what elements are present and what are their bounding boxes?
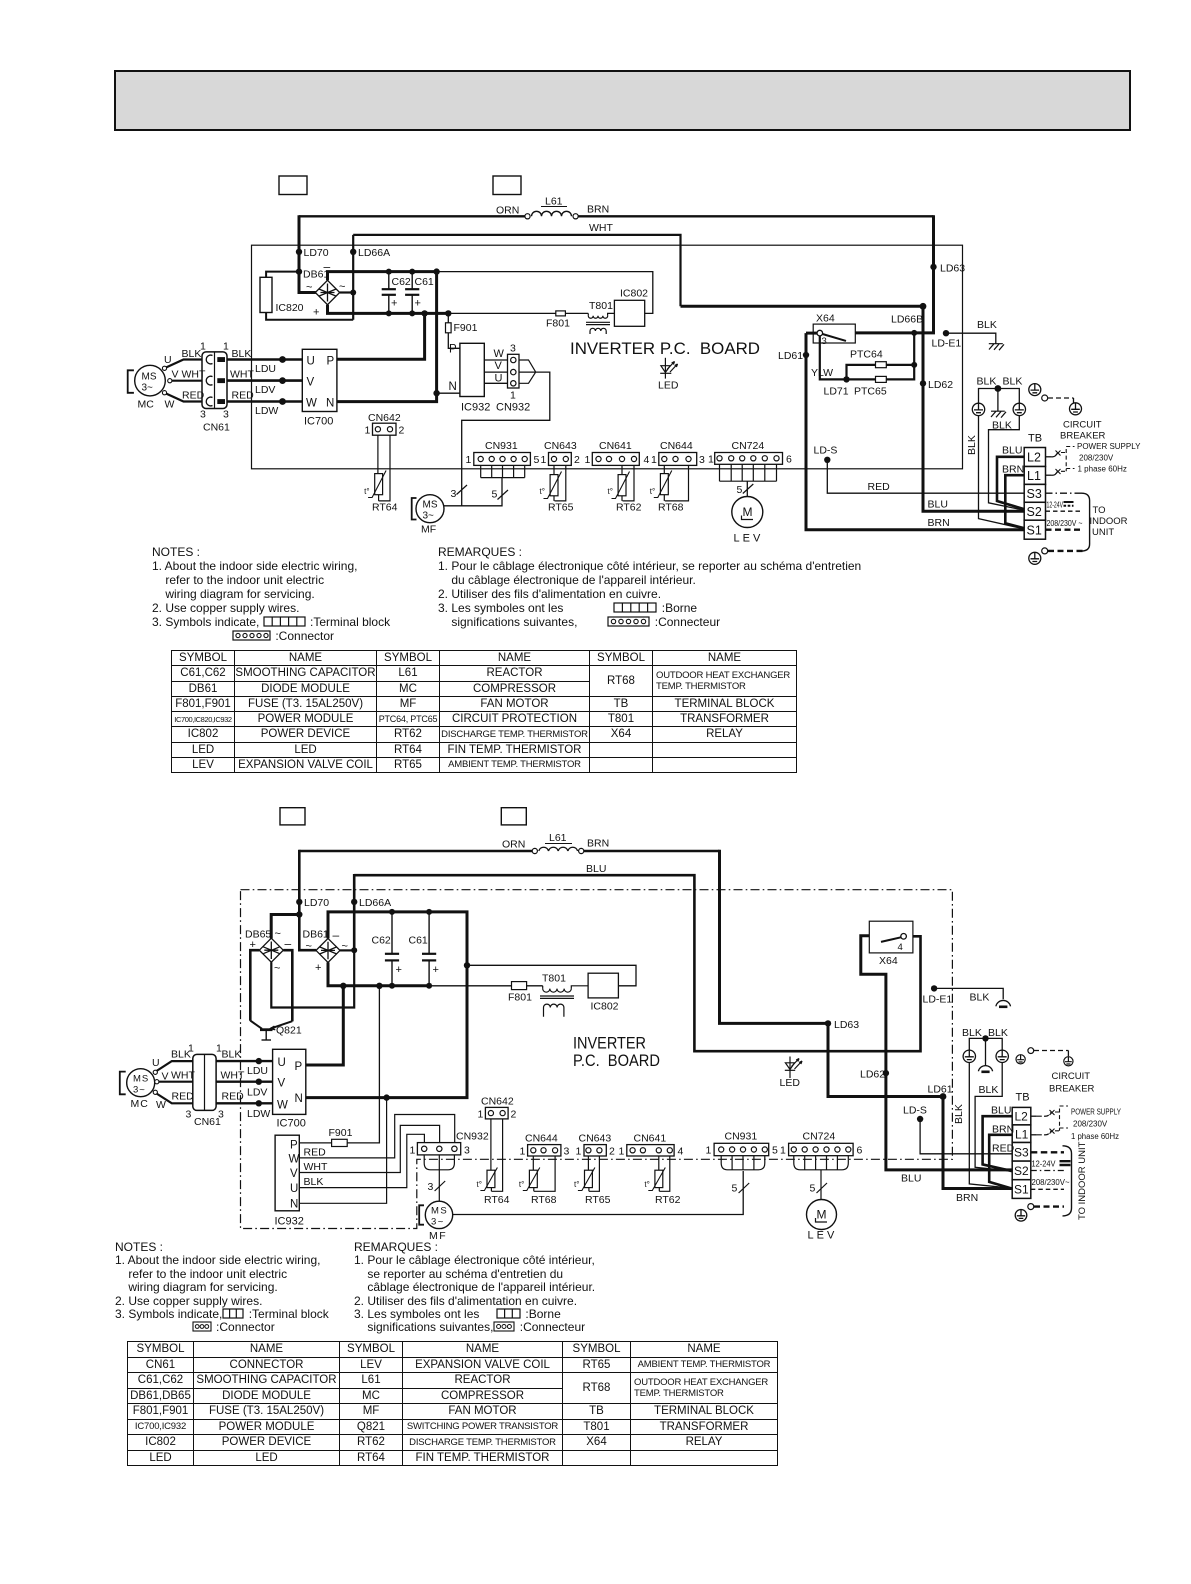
svg-text:~: ~ [342,941,348,953]
svg-text:208/230V: 208/230V [1079,454,1114,463]
svg-text:1 phase 60Hz: 1 phase 60Hz [1071,1132,1119,1141]
svg-text:RT65: RT65 [585,1194,611,1206]
connector CN643 [584,1145,606,1156]
svg-text:LD-E1: LD-E1 [923,994,953,1006]
wire IC932 N [299,1098,386,1204]
fuse F901 [299,1142,331,1144]
connector CN641 [592,453,639,466]
wire BRN (LD61 to S1) [943,1097,1013,1189]
svg-text:BLU: BLU [901,1173,921,1185]
wire F801 to T801 [565,312,588,314]
svg-text:3~: 3~ [133,1085,146,1096]
svg-text:LED: LED [780,1077,801,1089]
svg-text:X64: X64 [879,955,898,967]
svg-text:W: W [289,1154,300,1166]
svg-text:POWER SUPPLY: POWER SUPPLY [1071,1108,1122,1117]
svg-text:L2: L2 [1015,1110,1029,1124]
svg-text:C62: C62 [372,935,391,947]
placeholder rectangle (model box 2) [501,808,526,825]
wire BLK right earth to S2 [975,1063,1011,1172]
svg-text:3: 3 [464,1145,470,1157]
thermistor RT64 [491,1119,503,1191]
ground (chassis, center) [991,411,1006,417]
wire IC820 bottom to AC-right [266,313,353,320]
wire BLK right earth to S2 [989,416,1025,511]
svg-text:BLK: BLK [966,435,978,455]
wire jumper L1-S1 (BRN) [989,1135,1012,1189]
svg-text:5: 5 [732,1183,738,1195]
brace to indoor unit [1063,1146,1072,1216]
wire CN724 bundle to LEV [794,1156,849,1200]
svg-text:1: 1 [619,1146,625,1158]
svg-text:Q821: Q821 [276,1025,302,1037]
svg-text:T801: T801 [589,300,613,312]
svg-text:W: W [277,1100,288,1112]
node LD70 [296,899,302,905]
wire positive bus [328,962,430,985]
svg-text:CN643: CN643 [579,1133,612,1145]
thermistor RT64 [378,435,390,501]
svg-text:+: + [433,964,439,976]
wire BRN vertical to X64 [855,215,933,333]
svg-text:t°: t° [519,1180,524,1189]
svg-text:CN642: CN642 [481,1096,514,1108]
wire DB65 to Q821 [250,950,259,1021]
fuse F801 [556,311,566,316]
svg-text:IC802: IC802 [620,288,648,300]
svg-text:CIRCUIT: CIRCUIT [1052,1071,1091,1082]
connector CN932 [508,354,520,388]
svg-text:CN644: CN644 [525,1133,558,1145]
wire BLK left earth to S1 [979,416,1025,529]
svg-text:CN643: CN643 [544,440,577,452]
svg-text:PTC65: PTC65 [854,386,887,398]
placeholder rectangle (model box 1) [280,808,305,825]
wires IC932 to CN932 [484,360,507,383]
svg-text:+: + [396,964,402,976]
svg-text:IC932: IC932 [461,402,490,414]
wire PTC to X64 output [913,333,915,365]
svg-text:1: 1 [466,454,472,466]
svg-text:WHT: WHT [221,1070,245,1082]
svg-text:TB: TB [1016,1092,1030,1104]
node LD66B [920,303,927,310]
svg-text:RED: RED [868,481,891,493]
svg-text:1: 1 [780,1145,786,1157]
svg-text:BLK: BLK [953,1104,965,1124]
svg-text:1: 1 [410,1145,416,1157]
svg-text:V: V [278,1078,286,1090]
node LD71 [843,376,849,382]
svg-text:RT68: RT68 [531,1194,557,1206]
svg-text:1: 1 [585,454,591,466]
capacitor C61 [422,912,436,986]
svg-text:BLU: BLU [586,863,606,875]
thermistor RT68 [664,465,688,501]
node LD61 [940,1093,947,1100]
svg-text:BLK: BLK [182,348,202,360]
wire earth links [979,389,1020,404]
svg-text:F801: F801 [508,992,532,1004]
svg-text:LEV: LEV [734,533,764,545]
node LDV [279,377,286,384]
svg-text:t°: t° [644,1180,649,1189]
svg-text:CN932: CN932 [456,1131,489,1143]
wire U phase [225,358,302,361]
svg-text:W: W [165,399,175,411]
wire motor V lead [172,380,203,382]
svg-text:WHT: WHT [230,369,254,381]
svg-text:1: 1 [478,1109,484,1121]
LED indicator [785,1057,802,1079]
svg-text:+: + [415,298,421,310]
svg-text:RT62: RT62 [655,1194,681,1206]
power device IC802 [614,300,644,326]
svg-text:T801: T801 [542,973,566,985]
svg-text:S1: S1 [1014,1183,1029,1197]
svg-text:+: + [391,298,397,310]
svg-text:LDW: LDW [255,405,278,417]
svg-text:CN644: CN644 [660,440,693,452]
svg-text:WHT: WHT [171,1070,195,1082]
svg-text:S2: S2 [1027,505,1042,519]
node DB61 AC-left junction [296,268,302,274]
expansion valve LEV [732,497,763,528]
svg-text:ORN: ORN [502,839,525,851]
svg-text:LD70: LD70 [304,247,329,259]
power module IC700 [273,1049,306,1114]
wire BRN to LD63/LD61 [584,850,720,852]
fuse F901 [447,313,449,322]
svg-text:U: U [152,1057,160,1069]
node LD-E1 [931,985,937,991]
earth terminal left [963,1050,975,1062]
svg-text:3: 3 [223,409,229,421]
svg-text:CN931: CN931 [725,1131,758,1143]
svg-text:LD61: LD61 [778,350,803,362]
svg-text:12-24V: 12-24V [1032,1159,1056,1169]
svg-text:208/230V: 208/230V [1073,1120,1108,1129]
svg-text:2: 2 [609,1146,615,1158]
node P-rail tap [421,310,427,316]
fuse F801 [512,982,527,990]
svg-text:t°: t° [540,487,545,496]
svg-text:12-24V: 12-24V [1047,500,1064,510]
svg-text:M: M [743,505,753,519]
node LD-S [824,457,830,463]
svg-text:S3: S3 [1027,487,1042,501]
wire LD70 drop from ORN [299,215,316,292]
svg-text:S1: S1 [1027,524,1042,538]
svg-text:IC802: IC802 [591,1001,619,1013]
connector CN724 [720,464,777,481]
svg-text:t°: t° [364,487,369,496]
svg-text:PTC64: PTC64 [850,349,883,361]
svg-text:IC932: IC932 [275,1216,304,1228]
node DB61 AC-right junction [351,947,357,953]
svg-text:IC820: IC820 [276,302,304,314]
power supply connection L1 [1046,474,1052,476]
wire motor leads [157,1061,193,1071]
earth terminal bottom [1042,548,1048,554]
svg-text:5: 5 [492,489,498,501]
svg-text:LDV: LDV [247,1087,267,1099]
svg-text:S3: S3 [1014,1146,1029,1160]
svg-text:3: 3 [699,454,705,466]
svg-text:W: W [494,348,505,360]
svg-text:WHT: WHT [182,369,206,381]
connector CN643 [549,453,572,466]
svg-text:5: 5 [810,1183,816,1195]
svg-text:RED: RED [222,1091,245,1103]
symbol table (top) [171,650,797,773]
earth terminal right [996,1050,1008,1062]
svg-text:RED: RED [172,1091,195,1103]
wire to IC802 right [467,965,636,986]
relay X64 [869,921,913,953]
wire P rail [306,986,344,1065]
svg-text:BRN: BRN [928,517,950,529]
wire P rail to IC700 [336,313,425,359]
svg-text:U: U [307,356,315,368]
wire S2 dash-dot [1031,1170,1064,1172]
placeholder rectangle (model box 2) [493,176,521,195]
connector CN931 [714,1143,769,1155]
svg-text:~: ~ [274,963,280,975]
svg-text:CN641: CN641 [599,440,632,452]
node IC932 N junction [383,1094,389,1100]
svg-text:MS: MS [423,500,438,511]
svg-text:1: 1 [365,425,371,437]
wire IC932 U [299,1134,424,1187]
svg-text:BLK: BLK [962,1027,982,1039]
svg-text:t°: t° [608,487,613,496]
svg-text:3: 3 [510,343,516,355]
thermistor RT62 [622,465,634,501]
svg-text:C61: C61 [415,276,434,288]
svg-text:MC: MC [138,399,155,411]
svg-text:LD-E1: LD-E1 [932,338,962,350]
node LD-E1 [943,330,949,336]
svg-text:L61: L61 [545,196,563,208]
svg-text:3: 3 [822,336,827,347]
ground (earth dish, center) [978,1066,992,1072]
wire S1 dashed [1031,1188,1064,1190]
svg-text:BLK: BLK [970,992,990,1004]
wire BLK left earth to S1 [969,1063,1012,1189]
svg-text:DB61: DB61 [303,929,329,941]
svg-text:LD63: LD63 [834,1019,859,1031]
transformer T801 [586,313,614,334]
node DB65 bus junction [296,911,302,917]
svg-text:TB: TB [1028,433,1042,445]
wire WHT (AC neutral) [353,235,680,306]
wire 5-conductor mark (LEV) [743,484,754,494]
svg-text:1: 1 [510,390,516,402]
wire negative bus [306,912,467,1098]
node N-rail top [433,268,439,274]
connector CN644 [659,453,697,466]
svg-text:S2: S2 [1014,1164,1029,1178]
svg-text:UNIT: UNIT [1092,527,1114,538]
surge absorber IC820 [260,277,272,312]
svg-text:LD71: LD71 [824,386,849,398]
svg-text:BLK: BLK [1003,376,1023,388]
svg-text:208/230V~: 208/230V~ [1032,1177,1070,1187]
wire W phase [225,400,302,403]
svg-text:ORN: ORN [496,205,519,217]
node F901 tap [445,310,451,316]
svg-text:CN724: CN724 [803,1131,836,1143]
svg-text:3~: 3~ [423,511,435,522]
svg-text:RT68: RT68 [658,502,684,514]
power module IC700 [302,349,337,411]
svg-text:TO: TO [1093,505,1106,516]
power module IC932 [275,1135,299,1211]
svg-text:L2: L2 [1027,451,1041,465]
node LD-S [917,1116,923,1122]
notes bottom-left [115,1241,329,1335]
thermistor RT68 [533,1156,555,1191]
svg-text:P.C. BOARD: P.C. BOARD [573,1052,660,1070]
wire jumper L2-S2 (BLU) [997,457,1025,510]
svg-text:IC700: IC700 [277,1118,306,1130]
svg-text:BLK: BLK [979,1084,999,1096]
wire S3 dashed (to indoor unit) [1046,492,1084,494]
wire LD61 vertical (BRN to S1) [806,333,1025,530]
node BLK earth junction [982,1035,988,1041]
svg-text:BREAKER: BREAKER [1060,431,1106,442]
wire jumper L2-S2 (BLU) [983,1116,1013,1171]
svg-text:LEV: LEV [808,1230,838,1242]
notes top-right (French) [438,545,861,629]
node P rail tap [340,983,346,989]
connector CN61 [202,352,227,409]
ground (chassis, LD-E1) [989,344,1004,351]
wire negative bus [328,272,437,281]
wire earth links [969,1038,1002,1050]
svg-text:208/230V ~: 208/230V ~ [1047,518,1083,528]
notes top-left [152,545,390,643]
svg-text:P: P [295,1061,303,1073]
wire CN931 bundle [721,1156,765,1170]
svg-text:3: 3 [428,1181,434,1193]
svg-text:MS: MS [431,1206,448,1217]
svg-text:CN641: CN641 [634,1133,667,1145]
svg-text:P: P [327,356,335,368]
svg-text:+: + [315,962,321,974]
svg-text:C61: C61 [409,935,428,947]
svg-text:3: 3 [564,1146,570,1158]
wire V phase [216,1080,273,1082]
svg-text:RED: RED [232,390,255,402]
svg-text:LDW: LDW [247,1108,270,1120]
svg-text:4: 4 [644,454,650,466]
svg-text:3: 3 [200,409,206,421]
svg-text:RED: RED [182,390,205,402]
connector CN642 [373,423,397,435]
node LDW [279,398,286,405]
svg-text:1: 1 [576,1146,582,1158]
svg-text:LDV: LDV [255,384,275,396]
node BLK earth junction [995,385,1002,392]
svg-text:X64: X64 [816,313,835,325]
svg-text:CIRCUIT: CIRCUIT [1063,420,1102,431]
svg-text:INDOOR: INDOOR [1090,516,1128,527]
svg-text:LED: LED [658,380,679,392]
svg-text:C62: C62 [392,276,411,288]
wire motor U lead [166,360,202,368]
svg-text:POWER SUPPLY: POWER SUPPLY [1077,442,1141,451]
terminal block TB [1024,448,1045,540]
svg-text:BLK: BLK [992,420,1012,432]
reactor L61 [532,848,537,853]
node LD63 [930,264,936,270]
node F901 rail tap [376,983,382,989]
svg-text:BRN: BRN [587,204,609,216]
svg-text:~: ~ [275,928,281,940]
diode module DB61 [315,280,339,304]
svg-text:LDU: LDU [247,1065,268,1077]
svg-text:BLU: BLU [991,1105,1011,1117]
svg-text:V: V [495,360,503,372]
svg-text:t°: t° [477,1180,482,1189]
relay X64 [813,324,855,343]
svg-text:CN642: CN642 [368,412,401,424]
wire 3-conductor mark [457,485,468,495]
wire X64 left to LD62/S2 (BLU) [861,936,1013,1170]
wire LD66B bus [681,305,924,308]
wire RED (LD-S to S3) [827,460,1025,493]
svg-text:~: ~ [306,282,312,294]
circuit protection PTC65 [847,378,876,380]
wire jumper L1-S1 (BRN) [1005,475,1024,528]
symbol table (bottom) [127,1341,778,1466]
diode module DB65 [259,938,283,962]
svg-text:F801: F801 [546,318,570,330]
wire W phase [216,1102,273,1104]
wire MF to CN931 [453,1171,744,1215]
wire X64 coil branch to PTC [820,336,847,380]
svg-text:U: U [290,1183,298,1195]
svg-text:BLK: BLK [977,319,997,331]
reactor L61 [525,214,530,219]
thermistor RT62 [659,1156,670,1191]
power supply connection L2 [1046,456,1052,458]
svg-text:LDU: LDU [255,363,276,375]
node LD70 [296,249,302,255]
svg-text:N: N [449,381,457,393]
wire positive bus [328,305,449,314]
node LD66A [350,249,356,255]
wire DB65 top bus [271,915,299,939]
wire U phase [216,1060,273,1062]
svg-text:LD61: LD61 [928,1084,953,1096]
terminal block TB [1012,1107,1031,1198]
node LD66A [351,899,357,905]
svg-text:t°: t° [574,1180,579,1189]
svg-text:BLK: BLK [977,376,997,388]
wire BLK to earth [934,988,1003,999]
wire 5-conductor mark [739,1183,750,1193]
wire N rail [336,272,437,402]
svg-text:BLK: BLK [232,348,252,360]
svg-text:LD-S: LD-S [903,1105,927,1117]
svg-text:4: 4 [898,942,903,953]
svg-text:N: N [290,1199,298,1211]
wire F901 rail [347,986,379,1143]
svg-text:MS: MS [133,1074,149,1085]
